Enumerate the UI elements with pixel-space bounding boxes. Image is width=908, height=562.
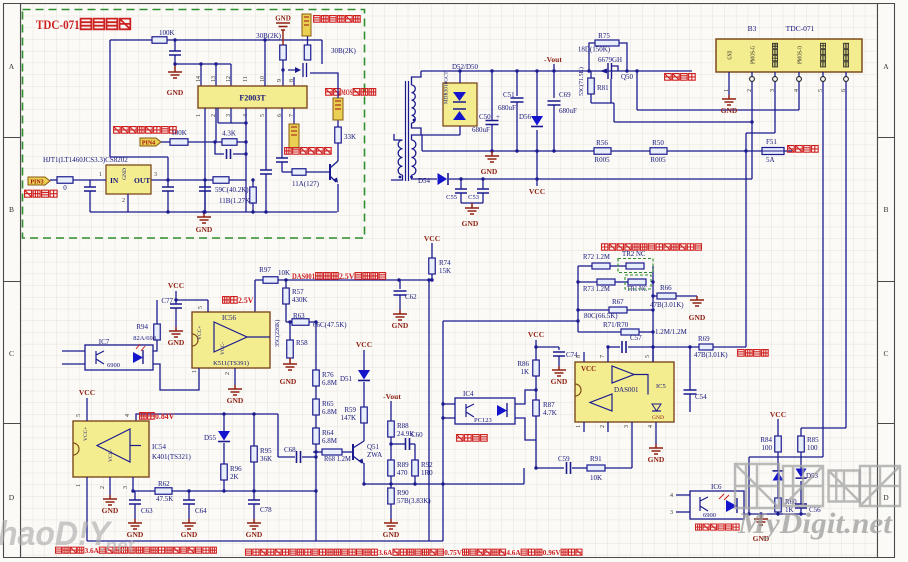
svg-text:57B(3.83K): 57B(3.83K) (397, 497, 431, 505)
svg-text:3: 3 (624, 425, 630, 428)
svg-text:VCC+: VCC+ (197, 326, 203, 340)
svg-text:GND: GND (721, 106, 738, 115)
svg-text:1R0: 1R0 (421, 469, 433, 477)
svg-text:C60: C60 (411, 431, 423, 439)
svg-text:R67: R67 (612, 298, 624, 306)
svg-text:C: C (9, 349, 14, 358)
svg-text:C59: C59 (558, 455, 570, 463)
svg-text:MyDigit.net: MyDigit.net (737, 507, 894, 540)
svg-text:R74: R74 (439, 259, 451, 267)
svg-text:30B(2K): 30B(2K) (256, 32, 282, 40)
svg-text:R65: R65 (322, 400, 334, 408)
svg-text:OUT: OUT (134, 176, 150, 185)
svg-text:18D(150K): 18D(150K) (578, 46, 611, 54)
svg-text:IC4: IC4 (463, 390, 474, 398)
svg-text:R81: R81 (597, 84, 609, 92)
svg-text:VCC: VCC (79, 388, 95, 397)
svg-text:2.5V: 2.5V (238, 296, 254, 305)
svg-text:R85: R85 (807, 436, 819, 444)
svg-text:147K: 147K (340, 414, 356, 422)
svg-text:100: 100 (762, 444, 773, 452)
svg-text:4: 4 (125, 414, 131, 417)
svg-text:R58: R58 (296, 339, 308, 347)
svg-text:2: 2 (225, 372, 231, 375)
svg-text:R62: R62 (158, 480, 170, 488)
svg-text:IC6: IC6 (711, 483, 722, 491)
svg-text:10K: 10K (590, 474, 602, 482)
svg-text:F51: F51 (766, 138, 777, 146)
svg-text:PC123: PC123 (474, 417, 492, 424)
svg-text:R90: R90 (397, 489, 409, 497)
svg-text:30B(2K): 30B(2K) (331, 47, 357, 55)
svg-text:VCC: VCC (529, 187, 545, 196)
svg-text:3: 3 (123, 486, 129, 489)
svg-text:R84: R84 (760, 436, 772, 444)
svg-text:R005: R005 (650, 156, 666, 164)
svg-text:82A/698: 82A/698 (133, 335, 156, 342)
svg-text:47B(3.01K): 47B(3.01K) (694, 351, 728, 359)
svg-text:R69: R69 (698, 335, 710, 343)
svg-text:100K: 100K (171, 129, 187, 137)
svg-text:6679GH: 6679GH (598, 56, 622, 64)
svg-text:R94: R94 (136, 323, 148, 331)
svg-text:8: 8 (576, 355, 582, 358)
svg-text:K401(TS321): K401(TS321) (152, 453, 192, 461)
svg-text:6900: 6900 (107, 362, 120, 369)
svg-text:4: 4 (648, 425, 654, 428)
svg-text:1: 1 (576, 425, 582, 428)
svg-text:B: B (9, 205, 14, 214)
svg-text:2: 2 (747, 89, 753, 92)
svg-text:R59: R59 (344, 406, 356, 414)
svg-text:GND: GND (102, 506, 119, 515)
svg-text:2: 2 (100, 486, 106, 489)
svg-text:D: D (883, 493, 889, 502)
svg-text:R97: R97 (259, 266, 271, 274)
svg-text:R92: R92 (421, 461, 433, 469)
svg-text:0.75V: 0.75V (444, 548, 462, 557)
svg-text:R50: R50 (652, 139, 664, 147)
svg-text:53C(71.5K): 53C(71.5K) (578, 67, 585, 96)
svg-text:15K: 15K (439, 267, 451, 275)
svg-text:TR1 NC: TR1 NC (627, 285, 647, 293)
svg-text:A: A (9, 62, 15, 71)
svg-text:GND: GND (275, 15, 291, 23)
svg-text:7: 7 (600, 355, 606, 358)
svg-text:80C(66.5K): 80C(66.5K) (584, 312, 618, 320)
svg-text:C77: C77 (161, 297, 173, 305)
svg-text:1K: 1K (520, 368, 529, 376)
svg-text:PMOS-G: PMOS-G (750, 46, 757, 64)
svg-text:GND: GND (392, 321, 409, 330)
svg-text:VCC: VCC (168, 281, 184, 290)
svg-text:47.5K: 47.5K (156, 495, 173, 503)
svg-text:4: 4 (670, 493, 673, 499)
svg-text:R66: R66 (660, 284, 672, 292)
svg-text:DAS001: DAS001 (614, 386, 639, 394)
svg-text:0.84V: 0.84V (155, 412, 174, 421)
svg-text:R68 1.2M: R68 1.2M (324, 455, 352, 463)
svg-text:100: 100 (807, 444, 818, 452)
svg-text:33K: 33K (344, 133, 356, 141)
svg-text:5: 5 (645, 355, 651, 358)
svg-text:35C(226K): 35C(226K) (274, 320, 281, 347)
svg-text:C50: C50 (479, 113, 491, 121)
svg-text:C64: C64 (195, 507, 207, 515)
svg-text:2.5V: 2.5V (339, 272, 355, 281)
svg-text:11A(127): 11A(127) (292, 180, 320, 188)
svg-text:C: C (883, 349, 888, 358)
svg-text:47B(3.01K): 47B(3.01K) (650, 301, 684, 309)
svg-text:2K: 2K (230, 473, 239, 481)
svg-text:GND: GND (227, 396, 244, 405)
svg-text:DAS001: DAS001 (292, 272, 315, 281)
svg-text:5: 5 (260, 114, 266, 117)
svg-text:C54: C54 (695, 393, 707, 401)
svg-text:+: + (496, 113, 500, 121)
svg-text:1: 1 (76, 484, 82, 487)
svg-text:R56: R56 (596, 139, 608, 147)
svg-text:3: 3 (154, 172, 157, 178)
svg-text:VCC: VCC (770, 410, 786, 419)
svg-text:IC54: IC54 (152, 443, 167, 451)
svg-text:GND: GND (383, 530, 400, 539)
svg-text:R57: R57 (292, 288, 304, 296)
svg-text:GND: GND (551, 377, 568, 386)
svg-text:R71/R70: R71/R70 (603, 321, 629, 329)
svg-text:0.96V: 0.96V (543, 548, 561, 557)
svg-text:GND: GND (648, 455, 665, 464)
svg-text:VCC: VCC (528, 330, 544, 339)
svg-text:66C(47.5K): 66C(47.5K) (313, 321, 347, 329)
svg-text:GND: GND (181, 530, 198, 539)
svg-text:5: 5 (198, 306, 204, 309)
svg-text:R91: R91 (590, 455, 602, 463)
svg-text:GND: GND (168, 338, 185, 347)
svg-text:MOS: MOS (341, 88, 353, 97)
svg-text:F2003T: F2003T (239, 94, 266, 103)
svg-text:1.2M/1.2M: 1.2M/1.2M (655, 328, 688, 336)
svg-text:C78: C78 (260, 506, 272, 514)
svg-text:R88: R88 (397, 422, 409, 430)
svg-text:R86: R86 (517, 360, 529, 368)
svg-text:9: 9 (277, 79, 283, 82)
svg-text:.net: .net (100, 536, 135, 555)
svg-text:D54: D54 (418, 177, 431, 185)
svg-text:2: 2 (122, 198, 125, 204)
svg-text:C51: C51 (503, 91, 515, 99)
svg-text:6.8M: 6.8M (322, 437, 338, 445)
svg-text:4.6A: 4.6A (506, 548, 521, 557)
svg-text:HJT1(LT1460JCS3.3)CS8202: HJT1(LT1460JCS3.3)CS8202 (43, 156, 128, 164)
svg-text:D55: D55 (204, 434, 217, 442)
svg-text:C63: C63 (141, 507, 153, 515)
svg-text:6900: 6900 (703, 512, 716, 519)
svg-text:PIN4: PIN4 (142, 141, 155, 147)
svg-text:100K: 100K (159, 29, 175, 37)
svg-text:4.3K: 4.3K (222, 130, 236, 138)
svg-text:R63: R63 (293, 312, 305, 320)
svg-text:D56: D56 (519, 113, 532, 121)
svg-text:PMOS-O: PMOS-O (797, 46, 804, 64)
svg-text:R87: R87 (543, 401, 555, 409)
svg-text:11: 11 (243, 76, 249, 82)
svg-text:1: 1 (196, 114, 202, 117)
svg-text:GND: GND (689, 313, 706, 322)
svg-text:GND: GND (122, 168, 128, 180)
svg-text:R73 1.2M: R73 1.2M (583, 285, 611, 293)
svg-text:B: B (883, 205, 888, 214)
svg-text:VCC+: VCC+ (83, 427, 89, 441)
svg-text:B3: B3 (748, 24, 757, 33)
svg-text:C55: C55 (446, 194, 457, 201)
svg-text:haoD!Y: haoD!Y (0, 515, 113, 553)
svg-text:VCC: VCC (581, 365, 596, 373)
svg-text:TR2 NC: TR2 NC (622, 250, 646, 258)
svg-text:K511(TS391): K511(TS391) (213, 360, 249, 367)
svg-text:2: 2 (600, 425, 606, 428)
svg-text:D51: D51 (340, 375, 353, 383)
svg-text:C69: C69 (559, 91, 571, 99)
svg-text:IN: IN (110, 176, 119, 185)
svg-text:1: 1 (99, 172, 102, 178)
svg-text:C57: C57 (630, 334, 642, 342)
svg-text:R89: R89 (397, 461, 409, 469)
svg-text:R76: R76 (322, 371, 334, 379)
svg-text:430K: 430K (292, 296, 308, 304)
svg-text:IC56: IC56 (222, 314, 237, 322)
svg-text:Q51: Q51 (367, 443, 380, 451)
svg-text:GND: GND (462, 219, 479, 228)
svg-text:C62: C62 (405, 293, 417, 301)
svg-text:1: 1 (192, 370, 198, 373)
svg-text:VCC-: VCC- (220, 342, 226, 355)
svg-text:680uF: 680uF (498, 104, 516, 112)
svg-text:GND: GND (196, 225, 213, 234)
svg-text:10K: 10K (278, 269, 290, 277)
svg-text:5A: 5A (766, 156, 775, 164)
svg-text:-Vout: -Vout (383, 392, 401, 401)
svg-text:IC5: IC5 (656, 383, 666, 390)
svg-text:3: 3 (770, 89, 776, 92)
svg-text:3.6A: 3.6A (378, 548, 393, 557)
svg-text:TDC-071: TDC-071 (786, 24, 815, 33)
svg-text:4: 4 (794, 89, 800, 92)
svg-text:VCC: VCC (356, 340, 372, 349)
svg-text:GND: GND (652, 415, 664, 421)
svg-text:ZWA: ZWA (367, 451, 382, 459)
svg-text:C68: C68 (284, 446, 296, 454)
svg-text:GND: GND (280, 377, 297, 386)
svg-text:14: 14 (196, 76, 202, 82)
svg-text:-Vout: -Vout (544, 55, 562, 64)
svg-text:11B(1.27K): 11B(1.27K) (219, 197, 253, 205)
svg-text:6.8M: 6.8M (322, 379, 338, 387)
svg-text:3: 3 (670, 510, 673, 516)
svg-text:36K: 36K (260, 455, 272, 463)
svg-text:PIN3: PIN3 (30, 180, 43, 186)
svg-text:GND: GND (481, 167, 498, 176)
svg-text:TDC-071: TDC-071 (36, 17, 80, 32)
svg-text:VCC-: VCC- (108, 449, 114, 462)
svg-text:MDR3016GCT: MDR3016GCT (444, 71, 450, 104)
svg-text:R72 1.2M: R72 1.2M (583, 253, 611, 261)
svg-text:R005: R005 (594, 156, 610, 164)
svg-text:R95: R95 (260, 447, 272, 455)
svg-text:VCC: VCC (424, 234, 440, 243)
svg-text:13: 13 (211, 76, 217, 82)
svg-text:A: A (883, 62, 889, 71)
svg-text:4.7K: 4.7K (543, 409, 557, 417)
svg-text:0: 0 (63, 184, 67, 192)
svg-text:6.8M: 6.8M (322, 408, 338, 416)
svg-text:D: D (9, 493, 15, 502)
svg-text:C53: C53 (468, 194, 479, 201)
svg-text:Q50: Q50 (621, 73, 634, 81)
svg-text:8: 8 (289, 79, 295, 82)
svg-text:680uF: 680uF (472, 126, 490, 134)
svg-text:IC7: IC7 (99, 338, 110, 346)
svg-text:GND: GND (246, 530, 263, 539)
svg-text:59C(40.2K): 59C(40.2K) (215, 186, 249, 194)
svg-text:5: 5 (76, 414, 82, 417)
svg-text:470: 470 (397, 469, 408, 477)
svg-text:R75: R75 (598, 32, 610, 40)
svg-text:R96: R96 (230, 465, 242, 473)
svg-text:GND: GND (167, 88, 184, 97)
svg-text:680uF: 680uF (559, 107, 577, 115)
svg-text:12: 12 (226, 76, 232, 82)
svg-text:GND: GND (727, 50, 734, 59)
svg-text:D52/D50: D52/D50 (452, 63, 479, 71)
svg-text:R64: R64 (322, 429, 334, 437)
